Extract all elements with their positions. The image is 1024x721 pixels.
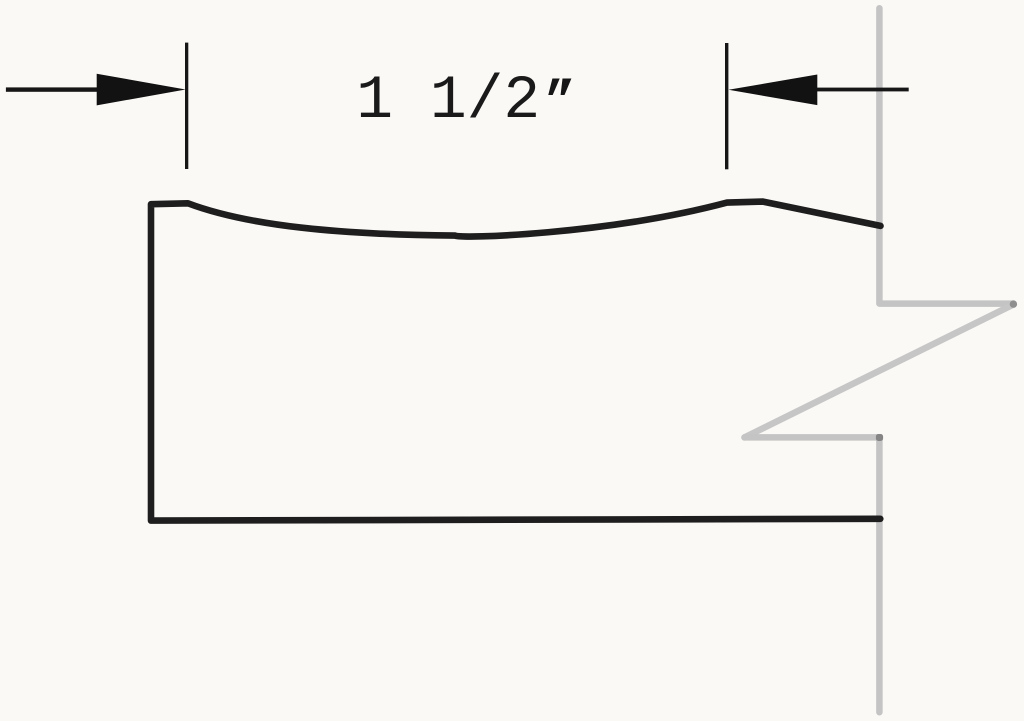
svg-text:1 1/2: 1 1/2 <box>356 67 540 136</box>
inch mark stroke 1 <box>548 79 559 96</box>
overlap darkening at diagonal/horizontal cap <box>1010 300 1017 307</box>
left dimension tail line <box>6 87 99 91</box>
overlap darkening at lower corner <box>876 434 883 441</box>
inch mark stroke 2 <box>561 79 572 96</box>
left extension line <box>185 43 188 169</box>
board outline (black) <box>151 202 881 521</box>
right dimension tail line <box>815 88 909 92</box>
break line (gray) lower horizontal + lower vertical <box>745 437 880 712</box>
left arrow <box>97 74 186 106</box>
right arrow <box>729 75 818 106</box>
break line (gray) upper vertical + top horizontal <box>879 8 1013 303</box>
right extension line <box>725 43 728 169</box>
break line (gray) diagonal <box>745 304 1014 437</box>
